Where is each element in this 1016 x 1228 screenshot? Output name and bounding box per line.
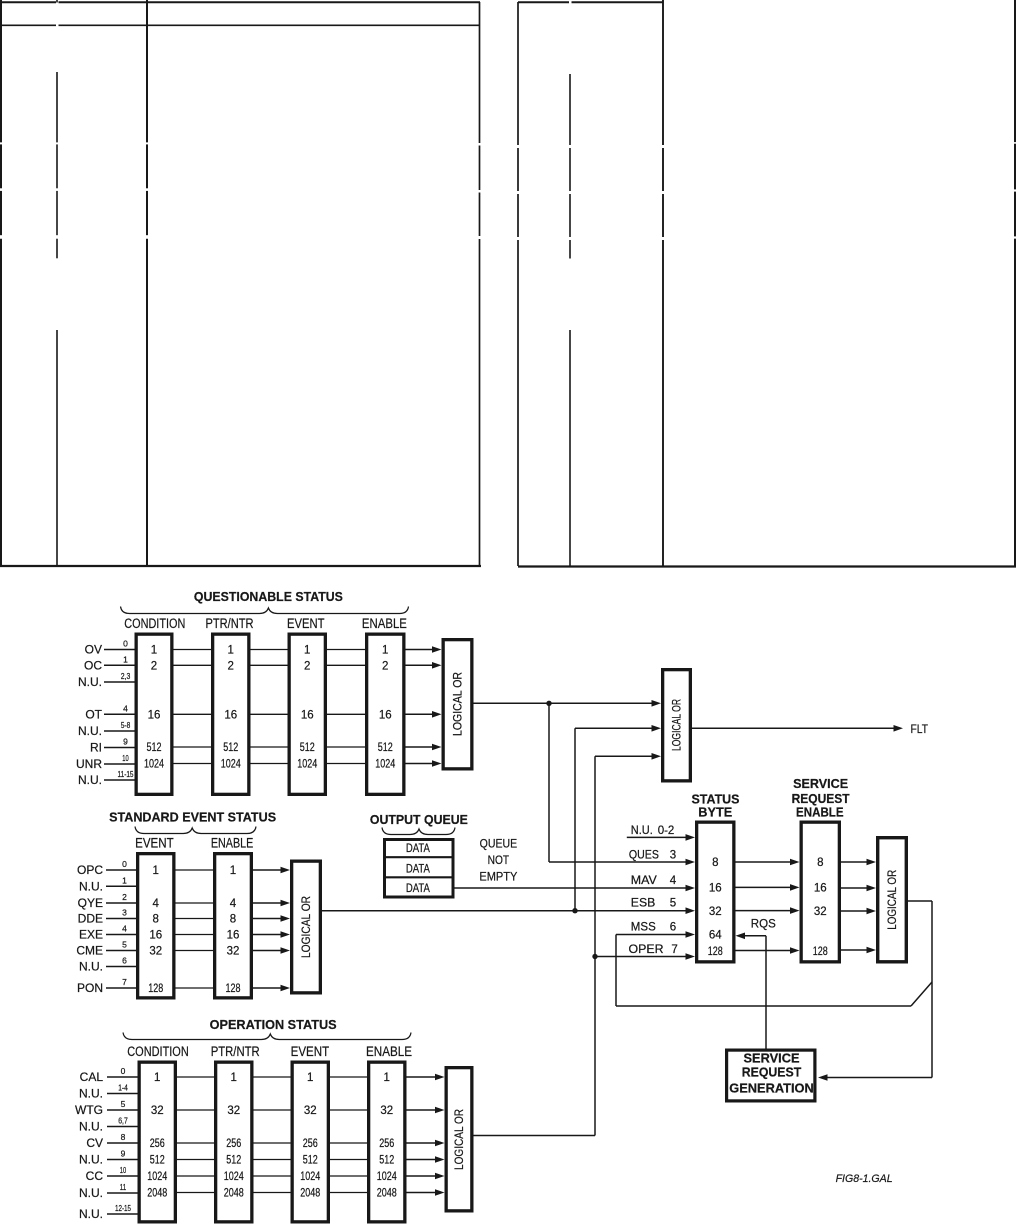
wire: RQS riser from SERVICE REQUEST GENERATION bbox=[765, 936, 767, 1049]
svg-text:1: 1 bbox=[382, 645, 388, 657]
svg-text:EVENT: EVENT bbox=[291, 1044, 330, 1059]
svg-text:PTR/NTR: PTR/NTR bbox=[206, 616, 254, 631]
input N.U. bit 6,7 lead wire (operation) bbox=[79, 1116, 138, 1134]
bit-value labels in questionable EVENT box bbox=[297, 645, 317, 771]
svg-text:N.U.: N.U. bbox=[79, 1153, 103, 1167]
wire: questionable CONDITION to PTR/NTR row 2 bbox=[174, 664, 212, 666]
svg-text:ENABLE: ENABLE bbox=[366, 1044, 412, 1059]
bit-value labels in operation ENABLE box bbox=[377, 1072, 397, 1200]
svg-text:8: 8 bbox=[817, 857, 823, 869]
input OC bit 1 lead wire (questionable) bbox=[84, 654, 135, 672]
output queue separator 1 bbox=[385, 856, 454, 858]
svg-text:BYTE: BYTE bbox=[698, 805, 732, 820]
wire: questionable CONDITION to PTR/NTR row 1 bbox=[174, 649, 212, 651]
svg-text:ESB: ESB bbox=[631, 898, 656, 910]
input WTG bit 5 lead wire (operation) bbox=[75, 1099, 138, 1117]
svg-text:2048: 2048 bbox=[300, 1188, 320, 1200]
svg-text:16: 16 bbox=[301, 709, 314, 721]
svg-text:4: 4 bbox=[122, 924, 127, 934]
svg-text:N.U.: N.U. bbox=[79, 1186, 103, 1200]
input N.U. bit 9 lead wire (operation) bbox=[79, 1149, 138, 1167]
svg-text:128: 128 bbox=[226, 983, 241, 995]
svg-text:32: 32 bbox=[814, 906, 827, 918]
svg-text:0-2: 0-2 bbox=[658, 825, 675, 837]
svg-text:3: 3 bbox=[670, 850, 676, 862]
svg-text:DATA: DATA bbox=[406, 843, 430, 855]
svg-text:1024: 1024 bbox=[300, 1171, 320, 1183]
svg-text:128: 128 bbox=[813, 946, 828, 958]
wire: questionable EVENT to ENABLE row 1024 bbox=[327, 763, 365, 765]
register box: questionable CONDITION bbox=[136, 634, 172, 794]
svg-text:PON: PON bbox=[77, 981, 103, 995]
svg-text:OPC: OPC bbox=[77, 863, 103, 877]
input MSS bit 6 wire from service-request feedback bbox=[616, 922, 695, 938]
wire: questionable PTR/NTR to EVENT row 2 bbox=[251, 664, 288, 666]
wire: std event EVENT to ENABLE row 16 bbox=[176, 934, 214, 936]
svg-text:1: 1 bbox=[307, 1072, 313, 1084]
wire: operation PTR/NTR to EVENT row 1024 bbox=[254, 1175, 291, 1177]
register box: questionable ENABLE bbox=[367, 634, 404, 794]
register box: SERVICE REQUEST ENABLE bbox=[801, 822, 839, 962]
svg-text:1024: 1024 bbox=[221, 759, 241, 771]
arrow: std event ENABLE to LOGICAL OR row 8 bbox=[253, 915, 290, 922]
register box: operation ENABLE bbox=[369, 1062, 405, 1222]
wire: questionable EVENT to ENABLE row 16 bbox=[327, 713, 365, 715]
bit-value labels in SERVICE REQUEST ENABLE box bbox=[813, 857, 828, 958]
arrow: SERVICE REQUEST ENABLE to LOGICAL OR row 32 bbox=[841, 908, 876, 915]
svg-text:N.U.: N.U. bbox=[79, 1207, 103, 1221]
svg-text:LOGICAL OR: LOGICAL OR bbox=[887, 870, 899, 930]
table 1 header separator line bbox=[0, 24, 480, 26]
svg-text:NOT: NOT bbox=[488, 853, 510, 867]
wire: service-request LOGICAL OR output bbox=[908, 900, 932, 902]
arrow: operation ENABLE to LOGICAL OR row 1 bbox=[407, 1074, 445, 1081]
svg-text:2: 2 bbox=[304, 660, 310, 672]
svg-text:1024: 1024 bbox=[375, 759, 395, 771]
input QYE bit 2 lead wire (std event) bbox=[78, 892, 136, 910]
register box: operation PTR/NTR bbox=[216, 1062, 252, 1222]
arrow: operation ENABLE to LOGICAL OR row 1024 bbox=[407, 1173, 445, 1180]
svg-text:OC: OC bbox=[84, 658, 102, 672]
svg-text:CONDITION: CONDITION bbox=[127, 1044, 189, 1059]
svg-text:N.U.: N.U. bbox=[78, 724, 102, 738]
svg-text:4: 4 bbox=[230, 898, 237, 910]
label QUEUE NOT EMPTY bbox=[479, 837, 517, 884]
logical-or box U-F (FLT summary) bbox=[663, 670, 691, 781]
table 2 left border bbox=[517, 2, 519, 566]
svg-text:LOGICAL OR: LOGICAL OR bbox=[454, 1109, 466, 1170]
svg-text:256: 256 bbox=[226, 1138, 241, 1150]
svg-text:11-15: 11-15 bbox=[118, 769, 134, 779]
arrow: questionable ENABLE to LOGICAL OR row 512 bbox=[406, 744, 442, 751]
wire: operation EVENT to ENABLE row 32 bbox=[330, 1109, 367, 1111]
arrow: node QSUM to FLT LOGICAL OR input 1 bbox=[549, 700, 661, 707]
svg-text:5: 5 bbox=[670, 898, 676, 910]
wire: operation EVENT to ENABLE row 512 bbox=[330, 1159, 367, 1161]
junction node QSUM bbox=[546, 701, 551, 706]
svg-text:0: 0 bbox=[122, 859, 127, 869]
svg-text:5-8: 5-8 bbox=[121, 720, 131, 730]
bit-value labels in operation CONDITION box bbox=[147, 1072, 167, 1200]
arrow: std event ENABLE to LOGICAL OR row 4 bbox=[253, 900, 290, 907]
svg-text:7: 7 bbox=[671, 944, 677, 956]
wire: MSS feedback run bbox=[616, 1005, 911, 1007]
svg-text:QUESTIONABLE STATUS: QUESTIONABLE STATUS bbox=[194, 589, 343, 604]
arrow: operation ENABLE to LOGICAL OR row 256 bbox=[407, 1140, 445, 1147]
wire: node ESUM rise to FLT LOGICAL OR bbox=[574, 728, 576, 910]
input OPC bit 0 lead wire (std event) bbox=[77, 859, 136, 877]
wire: operation PTR/NTR to EVENT row 32 bbox=[254, 1109, 291, 1111]
svg-text:32: 32 bbox=[151, 1105, 164, 1117]
svg-text:0: 0 bbox=[123, 639, 128, 649]
input CV bit 8 lead wire (operation) bbox=[86, 1132, 137, 1150]
svg-text:7: 7 bbox=[122, 977, 127, 987]
arrow: STATUS BYTE to SERVICE REQUEST ENABLE row 16 bbox=[736, 884, 800, 891]
arrow: questionable ENABLE to LOGICAL OR row 16 bbox=[406, 711, 442, 718]
wire: operation PTR/NTR to EVENT row 1 bbox=[254, 1076, 291, 1078]
svg-text:1: 1 bbox=[230, 865, 236, 877]
logical-or box U-O (operation) bbox=[446, 1068, 472, 1211]
arrow: wire into SERVICE REQUEST GENERATION input bbox=[818, 1074, 932, 1081]
svg-text:QUEUE: QUEUE bbox=[480, 837, 518, 851]
bit-value labels in operation EVENT box bbox=[300, 1072, 320, 1200]
svg-text:1: 1 bbox=[304, 645, 310, 657]
register box: questionable EVENT bbox=[289, 634, 325, 794]
arrow: RQS wire into STATUS BYTE bit 64 bbox=[736, 933, 767, 940]
arrow: operation ENABLE to LOGICAL OR row 512 bbox=[407, 1156, 445, 1163]
wire: diagonal branch to MSS feedback bbox=[911, 982, 932, 1006]
register box: standard event EVENT bbox=[138, 854, 174, 998]
svg-text:6: 6 bbox=[670, 922, 676, 934]
svg-text:1024: 1024 bbox=[377, 1171, 397, 1183]
svg-text:16: 16 bbox=[148, 709, 161, 721]
svg-text:16: 16 bbox=[814, 882, 827, 894]
svg-text:ENABLE: ENABLE bbox=[362, 616, 407, 631]
wire: std event EVENT to ENABLE row 32 bbox=[176, 950, 214, 952]
svg-text:1024: 1024 bbox=[147, 1171, 167, 1183]
svg-text:12-15: 12-15 bbox=[115, 1203, 131, 1213]
wire: questionable EVENT to ENABLE row 2 bbox=[327, 664, 365, 666]
wire: std event EVENT to ENABLE row 1 bbox=[176, 869, 214, 871]
wire: operation CONDITION to PTR/NTR row 512 bbox=[177, 1159, 214, 1161]
svg-text:1: 1 bbox=[123, 654, 128, 664]
svg-text:CC: CC bbox=[86, 1169, 104, 1183]
svg-text:128: 128 bbox=[708, 946, 723, 958]
svg-text:GENERATION: GENERATION bbox=[729, 1082, 814, 1096]
table 2 top border bbox=[518, 1, 663, 3]
wire: questionable PTR/NTR to EVENT row 512 bbox=[251, 746, 288, 748]
svg-text:EXE: EXE bbox=[79, 928, 103, 942]
svg-text:512: 512 bbox=[150, 1155, 165, 1167]
table 2 column divider x=570 bbox=[569, 74, 571, 566]
svg-text:32: 32 bbox=[304, 1105, 317, 1117]
arrow: std event ENABLE to LOGICAL OR row 32 bbox=[253, 947, 290, 954]
svg-text:OPER: OPER bbox=[629, 944, 664, 956]
svg-text:1: 1 bbox=[231, 1072, 237, 1084]
arrow: std event ENABLE to LOGICAL OR row 16 bbox=[253, 931, 290, 938]
wire: std event EVENT to ENABLE row 128 bbox=[176, 987, 214, 989]
svg-text:N.U.: N.U. bbox=[631, 825, 653, 837]
svg-text:3: 3 bbox=[122, 908, 127, 918]
arrow: operation ENABLE to LOGICAL OR row 2048 bbox=[407, 1189, 445, 1196]
input OT bit 4 lead wire (questionable) bbox=[85, 703, 134, 721]
svg-text:ENABLE: ENABLE bbox=[796, 805, 844, 820]
svg-text:MAV: MAV bbox=[631, 875, 657, 887]
svg-text:1: 1 bbox=[384, 1072, 390, 1084]
input EXE bit 4 lead wire (std event) bbox=[79, 924, 136, 942]
svg-text:2048: 2048 bbox=[224, 1188, 244, 1200]
wire: operation CONDITION to PTR/NTR row 2048 bbox=[177, 1192, 214, 1194]
svg-text:16: 16 bbox=[149, 930, 162, 942]
svg-text:1024: 1024 bbox=[144, 759, 164, 771]
svg-text:EVENT: EVENT bbox=[287, 616, 325, 631]
wire: questionable PTR/NTR to EVENT row 1 bbox=[251, 649, 288, 651]
arrow: questionable ENABLE to LOGICAL OR row 1 bbox=[406, 646, 442, 653]
svg-text:LOGICAL OR: LOGICAL OR bbox=[453, 672, 465, 736]
svg-text:512: 512 bbox=[147, 742, 162, 754]
svg-text:16: 16 bbox=[227, 930, 240, 942]
svg-text:256: 256 bbox=[150, 1138, 165, 1150]
svg-text:ENABLE: ENABLE bbox=[211, 835, 254, 850]
svg-text:8: 8 bbox=[121, 1132, 126, 1142]
svg-text:OV: OV bbox=[85, 643, 102, 657]
svg-text:0: 0 bbox=[121, 1066, 126, 1076]
wire: questionable CONDITION to PTR/NTR row 16 bbox=[174, 713, 212, 715]
register box: STATUS BYTE bbox=[697, 822, 734, 962]
svg-text:2,3: 2,3 bbox=[121, 671, 131, 681]
svg-text:32: 32 bbox=[709, 906, 722, 918]
svg-text:16: 16 bbox=[379, 709, 392, 721]
title: STATUS BYTE bbox=[692, 792, 740, 820]
svg-text:512: 512 bbox=[223, 742, 238, 754]
arrow: questionable ENABLE to LOGICAL OR row 1024 bbox=[406, 760, 442, 767]
arrow: STATUS BYTE to SERVICE REQUEST ENABLE row 128 bbox=[736, 947, 800, 954]
svg-text:1: 1 bbox=[122, 875, 127, 885]
register box: operation EVENT bbox=[292, 1062, 328, 1222]
svg-text:QYE: QYE bbox=[78, 896, 103, 910]
svg-text:5: 5 bbox=[122, 940, 127, 950]
input CAL bit 0 lead wire (operation) bbox=[80, 1066, 138, 1084]
svg-text:8: 8 bbox=[153, 914, 159, 926]
bit-value labels in questionable PTR/NTR box bbox=[221, 645, 241, 771]
svg-text:LOGICAL OR: LOGICAL OR bbox=[672, 699, 684, 751]
input DDE bit 3 lead wire (std event) bbox=[78, 908, 136, 926]
svg-text:1-4: 1-4 bbox=[118, 1083, 128, 1093]
arrow: STATUS BYTE to SERVICE REQUEST ENABLE row 32 bbox=[736, 907, 800, 914]
arrow: operation ENABLE to LOGICAL OR row 32 bbox=[407, 1107, 445, 1114]
wire: questionable EVENT to ENABLE row 512 bbox=[327, 746, 365, 748]
arrow: std event ENABLE to LOGICAL OR row 128 bbox=[253, 985, 290, 992]
svg-text:LOGICAL OR: LOGICAL OR bbox=[301, 896, 313, 958]
svg-text:16: 16 bbox=[224, 709, 237, 721]
input CC bit 10 lead wire (operation) bbox=[86, 1165, 138, 1183]
svg-text:OT: OT bbox=[85, 707, 102, 721]
svg-text:4: 4 bbox=[670, 875, 677, 887]
input N.U. bit 6 lead wire (std event) bbox=[79, 956, 136, 974]
input MAV bit 4 wire from output queue bbox=[455, 875, 696, 891]
svg-text:1024: 1024 bbox=[224, 1171, 244, 1183]
output queue box bbox=[385, 840, 454, 898]
arrow: SERVICE REQUEST ENABLE to LOGICAL OR row 128 bbox=[841, 947, 876, 954]
bit-value labels in questionable CONDITION box bbox=[144, 645, 164, 771]
wire: summary drop to SERVICE REQUEST GENERATION bbox=[931, 901, 933, 1078]
input OPER bit 7 wire from operation summary bbox=[592, 944, 695, 960]
svg-text:8: 8 bbox=[712, 857, 718, 869]
input OV bit 0 lead wire (questionable) bbox=[85, 639, 135, 657]
svg-text:2: 2 bbox=[382, 660, 388, 672]
svg-text:512: 512 bbox=[300, 742, 315, 754]
svg-text:1: 1 bbox=[153, 865, 159, 877]
output queue separator 2 bbox=[385, 876, 454, 878]
svg-text:512: 512 bbox=[226, 1155, 241, 1167]
svg-text:WTG: WTG bbox=[75, 1103, 103, 1117]
svg-text:MSS: MSS bbox=[631, 922, 656, 934]
bit-value labels in questionable ENABLE box bbox=[375, 645, 395, 771]
svg-text:16: 16 bbox=[709, 882, 722, 894]
table 2 column divider x=663 bbox=[662, 0, 664, 566]
box: SERVICE REQUEST GENERATION bbox=[727, 1050, 815, 1101]
logical-or box U-S (service request) bbox=[878, 838, 907, 962]
svg-text:CME: CME bbox=[76, 944, 103, 958]
svg-text:DATA: DATA bbox=[406, 863, 430, 875]
input N.U. bit 5-8 lead wire (questionable) bbox=[78, 720, 135, 738]
wire: operation PTR/NTR to EVENT row 256 bbox=[254, 1142, 291, 1144]
table 1 (top-left) frame bbox=[0, 0, 481, 566]
svg-text:10: 10 bbox=[120, 1165, 127, 1175]
wire: operation EVENT to ENABLE row 256 bbox=[330, 1142, 367, 1144]
svg-text:10: 10 bbox=[122, 753, 129, 763]
svg-text:FLT: FLT bbox=[911, 722, 929, 736]
svg-text:EMPTY: EMPTY bbox=[479, 869, 517, 883]
arrow: node OSUM to FLT LOGICAL OR input 3 bbox=[595, 753, 661, 760]
svg-text:2: 2 bbox=[122, 892, 127, 902]
wire: MSS feedback riser bbox=[615, 935, 617, 1007]
label SERVICE REQUEST GENERATION bbox=[729, 1052, 814, 1096]
wire: questionable LOGICAL OR output to node QSUM bbox=[474, 702, 550, 704]
svg-text:5: 5 bbox=[121, 1099, 126, 1109]
svg-text:DATA: DATA bbox=[406, 883, 430, 895]
svg-text:RQS: RQS bbox=[751, 917, 776, 931]
svg-text:4: 4 bbox=[123, 703, 128, 713]
wire: std event EVENT to ENABLE row 8 bbox=[176, 918, 214, 920]
arrow: std event ENABLE to LOGICAL OR row 1 bbox=[253, 867, 290, 874]
wire: operation CONDITION to PTR/NTR row 1024 bbox=[177, 1175, 214, 1177]
svg-text:64: 64 bbox=[709, 930, 722, 942]
input N.U. bits 0-2 lead wire (status byte) bbox=[627, 825, 695, 841]
svg-text:256: 256 bbox=[303, 1138, 318, 1150]
wire: questionable CONDITION to PTR/NTR row 1024 bbox=[174, 763, 212, 765]
svg-text:EVENT: EVENT bbox=[135, 835, 174, 850]
register box: questionable PTR/NTR bbox=[213, 634, 249, 794]
wire: operation CONDITION to PTR/NTR row 32 bbox=[177, 1109, 214, 1111]
svg-text:FIG8-1.GAL: FIG8-1.GAL bbox=[836, 1173, 893, 1185]
table 1 column divider x=57 bbox=[56, 0, 58, 566]
bit-value labels in standard event EVENT box bbox=[148, 865, 163, 995]
svg-text:1: 1 bbox=[228, 645, 234, 657]
wire: operation PTR/NTR to EVENT row 512 bbox=[254, 1159, 291, 1161]
svg-text:N.U.: N.U. bbox=[78, 675, 102, 689]
wire: questionable PTR/NTR to EVENT row 16 bbox=[251, 713, 288, 715]
brace over operation status registers bbox=[123, 1033, 411, 1040]
svg-text:N.U.: N.U. bbox=[79, 879, 103, 893]
logical-or box U-Q (questionable) bbox=[443, 640, 472, 769]
svg-text:6: 6 bbox=[122, 956, 127, 966]
input N.U. bit 2,3 lead wire (questionable) bbox=[78, 671, 135, 689]
svg-text:2: 2 bbox=[151, 660, 157, 672]
table 1 column divider x=147 bbox=[146, 0, 148, 566]
input RI bit 9 lead wire (questionable) bbox=[90, 737, 135, 755]
svg-text:UNR: UNR bbox=[76, 757, 102, 771]
register box: standard event ENABLE bbox=[215, 854, 252, 998]
svg-text:RI: RI bbox=[90, 741, 102, 755]
svg-text:9: 9 bbox=[123, 737, 128, 747]
input N.U. bit 11 lead wire (operation) bbox=[79, 1182, 138, 1200]
svg-text:32: 32 bbox=[149, 946, 162, 958]
wire: node QSUM drop to QUES row bbox=[548, 703, 550, 862]
wire: questionable PTR/NTR to EVENT row 1024 bbox=[251, 763, 288, 765]
svg-text:512: 512 bbox=[303, 1155, 318, 1167]
wire: operation CONDITION to PTR/NTR row 1 bbox=[177, 1076, 214, 1078]
input QUES bit 3 wire from questionable summary bbox=[549, 850, 695, 866]
svg-text:2048: 2048 bbox=[377, 1188, 397, 1200]
table 2 right border (clipped) bbox=[1014, 0, 1016, 566]
svg-text:QUES: QUES bbox=[629, 850, 659, 862]
svg-text:N.U.: N.U. bbox=[79, 960, 103, 974]
table 2 bottom border bbox=[518, 565, 1016, 567]
svg-text:1: 1 bbox=[151, 645, 157, 657]
svg-text:1024: 1024 bbox=[297, 759, 317, 771]
arrow: node ESUM to FLT LOGICAL OR input 2 bbox=[575, 725, 661, 732]
svg-text:6,7: 6,7 bbox=[118, 1116, 128, 1126]
svg-text:32: 32 bbox=[227, 946, 240, 958]
svg-text:STANDARD EVENT STATUS: STANDARD EVENT STATUS bbox=[109, 809, 276, 824]
table 1 left border bbox=[0, 0, 2, 566]
svg-text:2048: 2048 bbox=[147, 1188, 167, 1200]
logical-or box U-E (std event) bbox=[292, 861, 321, 993]
svg-text:512: 512 bbox=[378, 742, 393, 754]
brace over standard event status registers bbox=[135, 827, 256, 834]
svg-text:SERVICE: SERVICE bbox=[793, 776, 848, 791]
table 1 bottom border bbox=[0, 565, 481, 567]
input ESB bit 5 wire from std event summary bbox=[322, 898, 695, 915]
wire: node OSUM rise to FLT LOGICAL OR and drop to operation summary bbox=[594, 756, 596, 1135]
svg-text:N.U.: N.U. bbox=[79, 1087, 103, 1101]
arrow: FLT LOGICAL OR output to FLT bbox=[692, 725, 903, 732]
svg-text:32: 32 bbox=[380, 1105, 393, 1117]
input N.U. bit 1-4 lead wire (operation) bbox=[79, 1083, 138, 1101]
svg-text:N.U.: N.U. bbox=[78, 773, 102, 787]
svg-text:PTR/NTR: PTR/NTR bbox=[211, 1044, 260, 1059]
svg-text:DDE: DDE bbox=[78, 912, 103, 926]
arrow: SERVICE REQUEST ENABLE to LOGICAL OR row 16 bbox=[841, 885, 876, 892]
svg-text:4: 4 bbox=[153, 898, 160, 910]
brace over output queue bbox=[382, 828, 455, 835]
wire: questionable CONDITION to PTR/NTR row 512 bbox=[174, 746, 212, 748]
wire: operation EVENT to ENABLE row 2048 bbox=[330, 1192, 367, 1194]
svg-text:2: 2 bbox=[228, 660, 234, 672]
bit-value labels in STATUS BYTE box bbox=[708, 857, 723, 958]
input N.U. bit 11-15 lead wire (questionable) bbox=[78, 769, 135, 787]
svg-text:N.U.: N.U. bbox=[79, 1120, 103, 1134]
wire: questionable EVENT to ENABLE row 1 bbox=[327, 649, 365, 651]
input CME bit 5 lead wire (std event) bbox=[76, 940, 136, 958]
svg-text:11: 11 bbox=[120, 1182, 127, 1192]
input PON bit 7 lead wire (std event) bbox=[77, 977, 136, 995]
svg-text:CAL: CAL bbox=[80, 1070, 104, 1084]
bit-value labels in operation PTR/NTR box bbox=[224, 1072, 244, 1200]
wire: operation EVENT to ENABLE row 1 bbox=[330, 1076, 367, 1078]
svg-text:REQUEST: REQUEST bbox=[742, 1066, 802, 1080]
